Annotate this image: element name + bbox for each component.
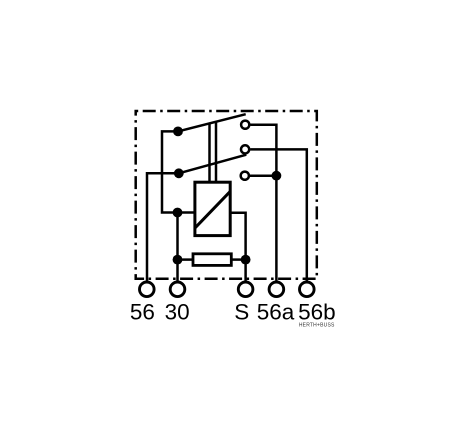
terminal 56a (pin circle) — [269, 282, 284, 297]
terminal S (pin circle) — [238, 282, 253, 297]
wire: dot D3 down through dot D4 to terminal 30 — [176, 213, 179, 281]
wire: coil right pin right then down through dot D5 to terminal S — [230, 213, 245, 281]
terminal 56 (pin circle) — [140, 282, 155, 297]
fixed contact C2 (open circle) — [241, 145, 249, 153]
junction dot D1 (arm1 pivot node) — [173, 126, 183, 136]
fixed contact C1 (open circle) — [241, 121, 249, 129]
wire: resistor right pin to dot D5 — [231, 258, 245, 261]
junction dot D3 (coil left node) — [173, 208, 183, 218]
wire: contact C1 right then down through dot D6 to terminal 56a — [250, 125, 276, 281]
terminal 30 (pin circle) — [170, 282, 185, 297]
junction dot D2 (arm2 pivot node) — [174, 168, 184, 178]
svg-text:S: S — [234, 300, 249, 325]
svg-text:HERTH+BUSS: HERTH+BUSS — [299, 323, 335, 329]
junction dot D5 (resistor right / S node) — [241, 255, 251, 265]
wire: from dot D2 left and down to terminal 56 — [147, 173, 179, 280]
svg-text:30: 30 — [165, 300, 190, 325]
svg-text:56: 56 — [130, 300, 155, 325]
switch arm 1 (movable contact from D1 toward contact C1) — [178, 114, 246, 131]
wire: node 30 branch from dot D1 left and down to coil-left dot D3 — [162, 131, 178, 212]
terminal 56b (pin circle) — [300, 282, 315, 297]
relay enclosure K1 (dash-dot boundary box) — [136, 111, 317, 279]
junction dot D4 (resistor left node) — [173, 255, 183, 265]
wire: contact C2 right then down to terminal 56b — [250, 149, 307, 280]
wire: dot D3 to coil left pin — [178, 211, 195, 214]
fixed contact C3 (open circle) — [241, 172, 249, 180]
relay coil (rectangle with diagonal) — [195, 182, 230, 235]
actuator linkage line 1 (left plunger bar to coil) — [208, 124, 211, 183]
wire: dot D4 to resistor left pin — [178, 258, 194, 261]
resistor R (series resistor between 30 and S) — [193, 254, 231, 266]
svg-text:56b: 56b — [298, 300, 336, 325]
wire: contact C3 to dot D6 — [250, 174, 277, 177]
junction dot D6 (56a node) — [272, 171, 282, 181]
svg-text:56a: 56a — [257, 300, 295, 325]
actuator linkage line 2 (right plunger bar to coil) — [215, 122, 218, 182]
switch arm 2 (movable contact from D2 toward contact C2) — [179, 155, 247, 174]
